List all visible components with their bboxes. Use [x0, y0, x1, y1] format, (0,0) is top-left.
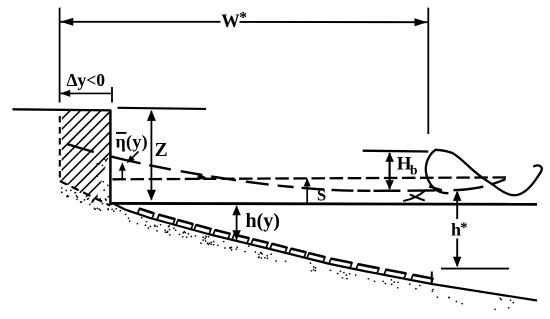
svg-text:h(y): h(y)	[246, 210, 280, 232]
svg-text:Z: Z	[155, 140, 168, 161]
svg-text:b: b	[410, 163, 418, 178]
svg-text:η(y): η(y)	[116, 132, 148, 153]
svg-text:*: *	[460, 220, 467, 236]
svg-text:Δy<0: Δy<0	[67, 70, 106, 90]
svg-text:W: W	[221, 12, 240, 32]
svg-text:*: *	[239, 10, 247, 27]
svg-text:S: S	[317, 186, 326, 205]
